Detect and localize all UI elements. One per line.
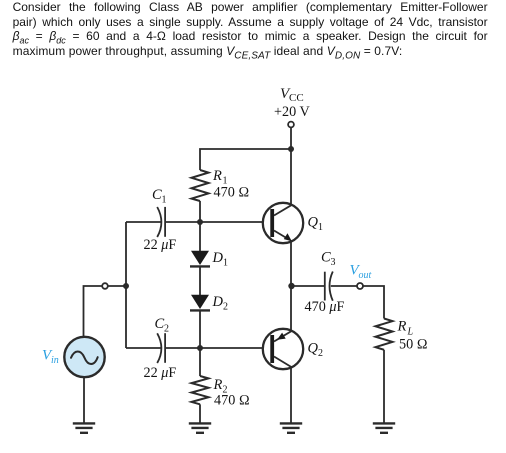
value 50 ohm (RL) — [399, 337, 428, 353]
source Vin — [64, 337, 104, 377]
wire C2 left — [126, 347, 161, 349]
svg-text:Q: Q — [308, 215, 319, 231]
label C2 — [155, 316, 170, 335]
value 22 uF (C2) — [144, 365, 177, 381]
wire output node to Q2 emitter — [290, 286, 292, 331]
svg-text:R: R — [212, 168, 222, 184]
wire Vin to ground — [83, 377, 85, 422]
wire R1 bottom to base junction — [199, 201, 201, 222]
svg-text:22 μF: 22 μF — [144, 365, 177, 381]
svg-text:D: D — [212, 250, 224, 266]
ground (Q2) — [280, 423, 302, 432]
svg-text:470 Ω: 470 Ω — [214, 393, 250, 409]
value 470 ohm (R2) — [214, 393, 250, 409]
svg-text:CC: CC — [289, 92, 304, 104]
label D1 — [212, 250, 229, 269]
wire Q1 emitter to output node — [290, 241, 292, 286]
diode D1 — [190, 251, 210, 267]
capacitor C2 — [157, 333, 165, 363]
label Vout — [350, 263, 372, 282]
svg-text:R: R — [213, 377, 223, 393]
svg-text:1: 1 — [318, 222, 323, 233]
svg-text:2: 2 — [223, 302, 228, 313]
svg-text:in: in — [51, 355, 59, 366]
svg-text:3: 3 — [331, 257, 336, 268]
terminal VCC — [288, 122, 294, 128]
wire Q2 collector to ground — [290, 367, 292, 423]
svg-text:Q: Q — [308, 341, 319, 357]
wire C1 to Q1 base — [165, 221, 263, 223]
wire junction to R2 — [199, 348, 201, 376]
wire C2 to Q2 base — [165, 347, 263, 349]
junction R1/D1/base Q1 — [197, 219, 203, 225]
label Vin — [42, 348, 59, 367]
ground (Vin) — [73, 423, 95, 432]
problem statement text — [13, 0, 488, 58]
wire C3 to RL corner — [331, 286, 384, 319]
junction D2/R2/base Q2 — [197, 345, 203, 351]
terminal Vout — [357, 283, 363, 289]
label C1 — [152, 187, 167, 206]
wire Vin to input bus — [84, 286, 127, 337]
node VCC label — [280, 86, 304, 104]
svg-text:2: 2 — [164, 324, 169, 335]
svg-text:50 Ω: 50 Ω — [399, 337, 428, 353]
label R1 — [212, 168, 228, 187]
resistor R1 — [192, 170, 209, 201]
ground (RL) — [373, 423, 395, 432]
wire VCC terminal to junction — [290, 127, 292, 149]
wire D2 cathode to lower junction — [199, 312, 201, 349]
wire junction to D1 anode — [199, 222, 201, 251]
capacitor C1 — [157, 207, 165, 237]
value +20 V — [274, 104, 310, 120]
resistor R2 — [192, 376, 209, 404]
wire left node to C1 — [126, 221, 161, 223]
wire RL to ground — [383, 350, 385, 423]
wire left vertical input bus — [125, 222, 127, 348]
svg-text:470 μF: 470 μF — [305, 299, 345, 315]
svg-text:+20 V: +20 V — [274, 104, 310, 120]
junction input bus — [123, 283, 129, 289]
svg-text:C: C — [155, 316, 165, 332]
diode D2 — [190, 295, 210, 311]
ground (R2) — [189, 423, 211, 432]
svg-text:C: C — [321, 250, 331, 266]
wire D1 cathode to D2 anode — [199, 268, 201, 296]
svg-text:C: C — [152, 187, 162, 203]
junction output node — [288, 283, 294, 289]
svg-text:out: out — [359, 270, 372, 281]
label RL — [397, 319, 414, 338]
wire output node to C3 — [292, 285, 325, 287]
resistor RL — [376, 319, 393, 350]
svg-text:2: 2 — [318, 348, 323, 359]
wire VCC junction to R1 top — [200, 149, 291, 170]
svg-text:D: D — [212, 294, 224, 310]
svg-text:1: 1 — [162, 195, 167, 206]
label D2 — [212, 294, 229, 313]
label Q2 — [308, 341, 324, 360]
transistor Q2 — [263, 329, 303, 369]
wire VCC junction to Q1 collector — [290, 149, 292, 205]
value 470 ohm (R1) — [214, 185, 250, 201]
value 470 uF (C3) — [305, 299, 345, 315]
junction VCC node — [288, 146, 294, 152]
svg-text:R: R — [397, 319, 407, 335]
wire R2 to ground — [199, 404, 201, 422]
label Q1 — [308, 215, 324, 234]
svg-text:1: 1 — [223, 258, 228, 269]
label C3 — [321, 250, 336, 269]
value 22 uF (C1) — [144, 237, 177, 253]
terminal input — [102, 283, 108, 289]
label R2 — [213, 377, 228, 396]
svg-text:470 Ω: 470 Ω — [214, 185, 250, 201]
svg-text:22 μF: 22 μF — [144, 237, 177, 253]
transistor Q1 — [263, 203, 303, 243]
capacitor C3 — [325, 272, 333, 301]
